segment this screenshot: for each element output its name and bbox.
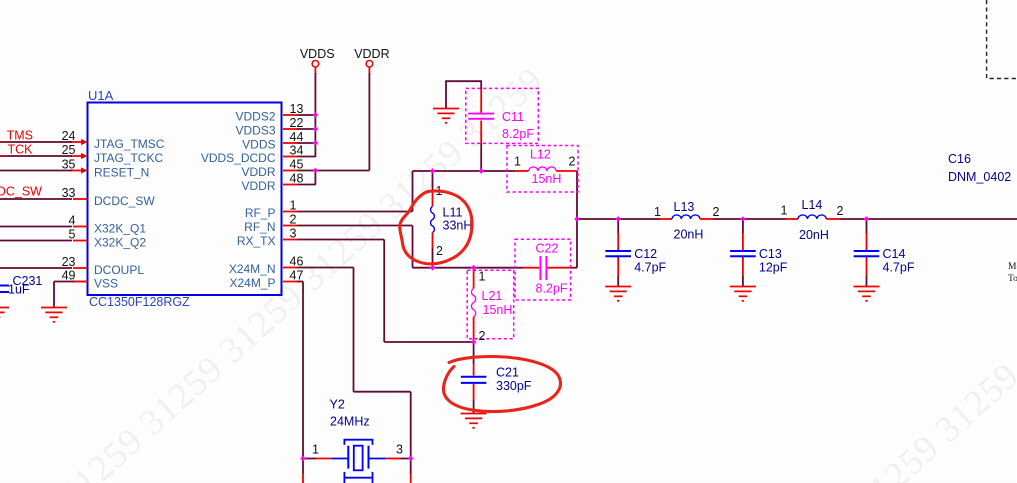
svg-text:8.2pF: 8.2pF xyxy=(502,127,534,141)
svg-text:Y2: Y2 xyxy=(330,398,345,412)
svg-text:35: 35 xyxy=(62,157,76,171)
svg-text:1uF: 1uF xyxy=(8,283,30,297)
svg-text:VDDR: VDDR xyxy=(241,165,275,179)
svg-text:22: 22 xyxy=(290,116,304,130)
svg-text:23: 23 xyxy=(62,255,76,269)
svg-text:2: 2 xyxy=(713,205,720,219)
svg-text:2: 2 xyxy=(569,155,576,169)
svg-text:12pF: 12pF xyxy=(759,261,788,275)
svg-text:2: 2 xyxy=(837,204,844,218)
svg-text:RF_P: RF_P xyxy=(245,206,276,220)
svg-text:U1A: U1A xyxy=(88,88,114,103)
svg-text:RESET_N: RESET_N xyxy=(94,166,149,180)
svg-text:C16: C16 xyxy=(948,152,971,166)
svg-text:DC_SW: DC_SW xyxy=(0,185,42,199)
svg-text:C22: C22 xyxy=(536,242,559,256)
svg-text:G_TCK: G_TCK xyxy=(0,143,33,157)
svg-text:JTAG_TCKC: JTAG_TCKC xyxy=(94,151,163,165)
svg-text:24: 24 xyxy=(62,129,76,143)
svg-text:L11: L11 xyxy=(443,206,463,220)
svg-text:L12: L12 xyxy=(530,148,551,162)
svg-text:To: To xyxy=(1008,274,1017,284)
svg-text:CC1350F128RGZ: CC1350F128RGZ xyxy=(89,295,190,309)
svg-text:L13: L13 xyxy=(674,200,695,214)
svg-text:8.2pF: 8.2pF xyxy=(536,282,568,296)
svg-text:44: 44 xyxy=(290,130,304,144)
svg-text:1: 1 xyxy=(781,204,788,218)
svg-text:Mo: Mo xyxy=(1008,262,1017,272)
svg-text:VDDR: VDDR xyxy=(354,47,389,61)
svg-text:2: 2 xyxy=(479,329,486,343)
svg-text:5: 5 xyxy=(69,227,76,241)
svg-text:C21: C21 xyxy=(496,366,519,380)
svg-text:1: 1 xyxy=(479,270,486,284)
svg-text:33nH: 33nH xyxy=(443,219,473,233)
svg-text:VDDS3: VDDS3 xyxy=(235,123,275,137)
svg-text:VDDS2: VDDS2 xyxy=(235,109,275,123)
svg-text:C12: C12 xyxy=(634,247,657,261)
svg-text:20nH: 20nH xyxy=(799,228,829,242)
svg-text:45: 45 xyxy=(290,157,304,171)
svg-text:330pF: 330pF xyxy=(496,379,532,393)
svg-text:VDDS_DCDC: VDDS_DCDC xyxy=(201,151,276,165)
svg-text:JTAG_TMSC: JTAG_TMSC xyxy=(94,137,165,151)
svg-text:15nH: 15nH xyxy=(483,303,513,317)
svg-text:VDDS: VDDS xyxy=(242,137,275,151)
svg-text:C14: C14 xyxy=(883,247,906,261)
svg-text:1: 1 xyxy=(312,443,319,457)
svg-text:2: 2 xyxy=(436,244,443,258)
svg-text:RX_TX: RX_TX xyxy=(237,234,276,248)
svg-text:24MHz: 24MHz xyxy=(330,415,370,429)
svg-text:VDDS: VDDS xyxy=(300,47,335,61)
svg-text:DCOUPL: DCOUPL xyxy=(94,263,144,277)
svg-text:4: 4 xyxy=(69,213,76,227)
svg-text:L21: L21 xyxy=(482,289,503,303)
svg-text:3: 3 xyxy=(290,226,297,240)
svg-text:33: 33 xyxy=(62,186,76,200)
svg-text:13: 13 xyxy=(290,102,304,116)
svg-text:20nH: 20nH xyxy=(674,228,704,242)
svg-text:4.7pF: 4.7pF xyxy=(634,261,666,275)
svg-text:34: 34 xyxy=(290,143,304,157)
svg-text:RF_N: RF_N xyxy=(244,220,275,234)
svg-text:C13: C13 xyxy=(759,247,782,261)
svg-text:1: 1 xyxy=(290,198,297,212)
svg-text:X24M_P: X24M_P xyxy=(229,276,275,290)
svg-text:C11: C11 xyxy=(502,110,524,124)
svg-text:1: 1 xyxy=(654,205,661,219)
svg-text:25: 25 xyxy=(62,143,76,157)
svg-text:DCDC_SW: DCDC_SW xyxy=(94,194,155,208)
svg-text:1: 1 xyxy=(514,155,521,169)
svg-text:15nH: 15nH xyxy=(532,172,562,186)
svg-text:47: 47 xyxy=(290,268,304,282)
svg-text:46: 46 xyxy=(290,254,304,268)
svg-text:VSS: VSS xyxy=(94,277,118,291)
svg-text:48: 48 xyxy=(290,171,304,185)
svg-text:X24M_N: X24M_N xyxy=(229,262,276,276)
svg-text:DNM_0402: DNM_0402 xyxy=(948,170,1011,184)
svg-text:G_TMS: G_TMS xyxy=(0,129,33,143)
svg-text:49: 49 xyxy=(62,268,76,282)
svg-text:X32K_Q1: X32K_Q1 xyxy=(94,222,146,236)
svg-text:3: 3 xyxy=(396,443,403,457)
svg-text:L14: L14 xyxy=(802,198,823,212)
svg-text:4.7pF: 4.7pF xyxy=(883,261,915,275)
svg-text:X32K_Q2: X32K_Q2 xyxy=(94,236,146,250)
svg-text:VDDR: VDDR xyxy=(241,179,275,193)
svg-text:2: 2 xyxy=(290,212,297,226)
